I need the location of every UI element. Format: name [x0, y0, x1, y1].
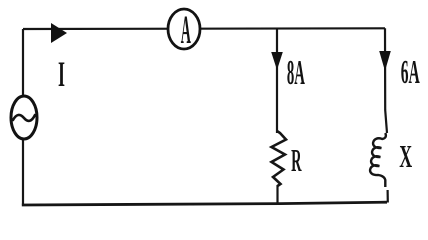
- svg-text:6A: 6A: [401, 52, 420, 91]
- svg-text:X: X: [399, 139, 412, 175]
- wire bottom horizontal: [22, 202, 387, 205]
- wire X branch upper lead: [385, 28, 387, 133]
- wire top horizontal: [23, 27, 385, 30]
- label X: [399, 139, 412, 175]
- svg-text:A: A: [181, 8, 191, 52]
- svg-text:8A: 8A: [287, 53, 305, 92]
- label I: [58, 56, 65, 95]
- arrow current I (right): [51, 23, 67, 43]
- label 8A: [287, 53, 305, 92]
- svg-text:I: I: [58, 56, 65, 95]
- label 6A: [401, 52, 420, 91]
- wire X branch lower lead: [387, 190, 389, 203]
- svg-text:R: R: [291, 144, 302, 179]
- source V1 AC: [11, 96, 37, 139]
- ammeter A1: [168, 8, 200, 52]
- wire left vertical lower: [22, 139, 24, 205]
- arrow 8A branch current (down): [271, 52, 283, 70]
- inductor X: [370, 133, 386, 187]
- resistor R: [272, 131, 287, 186]
- arrow 6A branch current (down): [379, 51, 391, 71]
- wire left vertical upper: [22, 29, 24, 97]
- label R: [291, 144, 302, 179]
- wire R branch lower lead: [276, 185, 278, 204]
- wire R branch upper lead: [276, 29, 278, 134]
